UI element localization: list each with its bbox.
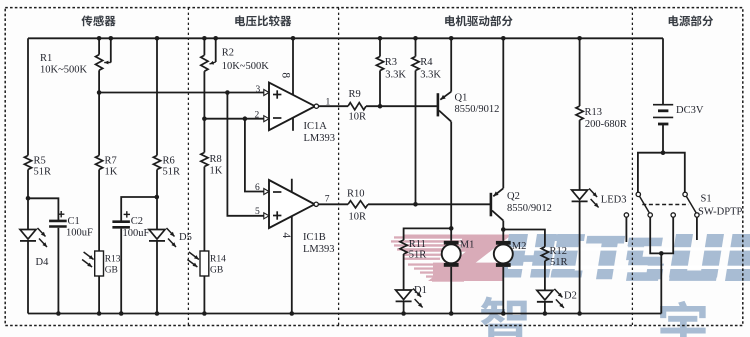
svg-text:2: 2	[255, 111, 260, 121]
wire inverting input net	[204, 118, 264, 120]
wire R5 column top	[27, 38, 29, 155]
wire R10 to Q2 base	[368, 203, 490, 205]
svg-text:LM393: LM393	[304, 133, 336, 144]
wire switch throw stub 1	[625, 217, 627, 242]
node pin6 tap	[243, 116, 248, 121]
svg-text:SW-DPTP: SW-DPTP	[698, 207, 743, 218]
title sensor section	[81, 15, 115, 26]
photoresistor R13 GB	[82, 251, 121, 276]
svg-text:C2: C2	[131, 216, 143, 227]
pin number 6	[255, 183, 260, 193]
wire R7 to R13	[98, 170, 100, 252]
resistor R3	[376, 36, 406, 106]
wire R11 tap	[404, 228, 452, 240]
wire IC1B output	[318, 203, 348, 205]
pin number 1	[326, 97, 331, 107]
resistor R12	[541, 246, 567, 268]
pin number 8 rotated	[280, 72, 292, 78]
top rail wire	[28, 37, 663, 39]
wire to pin 6	[245, 119, 265, 192]
capacitor C2	[112, 211, 149, 239]
wire IC1A output	[319, 105, 349, 107]
potentiometer R1	[40, 36, 113, 93]
wire noninverting input net	[99, 92, 265, 94]
resistor R5	[24, 156, 51, 178]
section divider 3	[631, 8, 633, 326]
svg-text:M2: M2	[512, 241, 527, 252]
svg-text:1K: 1K	[105, 167, 118, 178]
svg-text:D5: D5	[179, 232, 192, 243]
svg-text:GB: GB	[105, 266, 118, 276]
wire R13 to bottom rail	[97, 276, 102, 316]
transistor Q1	[437, 92, 500, 122]
svg-text:10K~500K: 10K~500K	[40, 65, 88, 76]
svg-text:C1: C1	[68, 216, 80, 227]
svg-text:3.3K: 3.3K	[385, 70, 406, 81]
svg-text:IC1B: IC1B	[303, 232, 326, 243]
wire R6 column top	[155, 36, 160, 156]
LED LED3	[572, 189, 627, 208]
wire switch feed bar	[638, 153, 685, 193]
wire R12 tap	[503, 230, 545, 247]
resistor R6	[153, 156, 180, 178]
op-amp IC1A power pin 8 wire	[291, 36, 296, 131]
svg-text:S1: S1	[701, 194, 712, 205]
switch S1 labels	[698, 194, 743, 218]
svg-text:R8: R8	[210, 154, 222, 165]
wire R8 to R14	[203, 167, 205, 252]
node pin5 tap	[225, 90, 230, 95]
pin number 5	[255, 207, 260, 217]
capacitor C1	[49, 211, 93, 239]
watermark char yu	[660, 301, 706, 337]
svg-text:3: 3	[256, 85, 261, 95]
svg-text:5: 5	[255, 207, 260, 217]
pin number 4 rotated	[280, 232, 292, 238]
title comparator section	[235, 15, 291, 26]
wire D4 to bottom rail	[27, 241, 29, 314]
resistor R10	[347, 189, 368, 223]
node M2-R12 junction	[501, 227, 506, 232]
watermark letter Z	[404, 235, 512, 282]
wire C1 tap	[28, 198, 58, 220]
wire M1 to bottom rail	[449, 267, 454, 316]
op-amp IC1B	[264, 180, 335, 255]
svg-text:D1: D1	[414, 285, 427, 296]
svg-text:51R: 51R	[409, 250, 427, 261]
svg-text:51R: 51R	[34, 167, 52, 178]
svg-text:LM393: LM393	[303, 244, 335, 255]
svg-text:R13: R13	[105, 255, 121, 265]
svg-text:DC3V: DC3V	[676, 105, 704, 116]
svg-text:R6: R6	[163, 156, 175, 167]
wire rail to battery	[662, 38, 664, 104]
transistor Q2	[490, 188, 552, 220]
resistor R11	[400, 239, 426, 261]
svg-text:GB: GB	[210, 266, 223, 276]
svg-text:D4: D4	[36, 257, 50, 268]
bottom rail wire	[28, 313, 661, 315]
svg-text:R11: R11	[409, 239, 426, 250]
svg-text:Q2: Q2	[507, 191, 520, 202]
LED D4	[20, 228, 49, 268]
motor M2	[494, 241, 527, 267]
node R2 bottom junction	[202, 116, 207, 121]
pin number 2	[255, 111, 260, 121]
wire to pin 5	[227, 93, 264, 216]
node switch ground join	[659, 251, 664, 256]
svg-text:100uF: 100uF	[66, 228, 93, 239]
wire R6 to D5	[156, 170, 158, 230]
wire R12 to D2	[544, 261, 546, 291]
resistor R7	[96, 156, 118, 178]
watermark char zhi	[481, 296, 527, 337]
node M1-R11 junction	[449, 226, 454, 231]
svg-text:8550/9012: 8550/9012	[455, 104, 500, 115]
node R3-R9 junction	[378, 104, 383, 109]
section divider 1	[187, 8, 189, 326]
LED D2	[537, 289, 577, 308]
resistor R9	[348, 89, 366, 123]
svg-text:R10: R10	[347, 189, 365, 200]
svg-text:6: 6	[255, 183, 260, 193]
svg-text:LED3: LED3	[601, 195, 627, 206]
wire R14 to bottom rail	[202, 276, 207, 316]
wire R13 to LED3	[579, 120, 581, 190]
node R1 bottom junction	[97, 90, 102, 95]
LED D5	[149, 228, 192, 247]
switch S1 pole 2	[671, 192, 699, 217]
resistor R8	[201, 119, 223, 177]
title power section	[669, 15, 713, 26]
svg-text:8550/9012: 8550/9012	[507, 203, 552, 214]
svg-text:R13: R13	[585, 107, 603, 118]
svg-text:4: 4	[280, 232, 292, 238]
wire LED3 to bottom rail	[577, 202, 582, 316]
svg-text:100uF: 100uF	[123, 228, 150, 239]
wire R7 column	[98, 93, 100, 156]
svg-text:8: 8	[280, 72, 292, 78]
wire D2 to bottom rail	[543, 302, 548, 316]
svg-text:M1: M1	[460, 240, 475, 251]
wire switch throw stub 2	[696, 217, 698, 240]
svg-text:R4: R4	[420, 57, 433, 68]
switch S1 pole 1	[624, 192, 652, 217]
battery DC3V	[653, 105, 704, 124]
op-amp IC1A	[264, 83, 335, 145]
svg-text:R3: R3	[385, 57, 397, 68]
svg-text:R9: R9	[349, 89, 361, 100]
section divider 2	[338, 8, 340, 326]
potentiometer R2	[201, 36, 269, 119]
wire C2 tap	[121, 197, 157, 221]
svg-text:1K: 1K	[210, 166, 223, 177]
svg-text:IC1A: IC1A	[304, 121, 328, 132]
svg-text:10K~500K: 10K~500K	[222, 61, 270, 72]
svg-text:10R: 10R	[349, 212, 367, 223]
pin number 7	[325, 195, 330, 205]
op-amp IC1B power pin 4 wire	[290, 179, 295, 316]
wire Q1 collector to M1	[450, 122, 452, 241]
resistor R4	[412, 36, 442, 204]
svg-text:R12: R12	[550, 246, 568, 257]
wire Q2 collector to M2	[502, 221, 504, 241]
wire D1 to bottom rail	[401, 302, 406, 316]
svg-text:R14: R14	[210, 255, 226, 265]
wire R11 to D1	[403, 254, 405, 290]
svg-text:10R: 10R	[349, 112, 367, 123]
wire D5 to bottom rail	[155, 241, 160, 316]
pin number 3	[256, 85, 261, 95]
watermark stripes	[391, 236, 464, 281]
wire battery to switch node	[662, 125, 664, 153]
switch gang dashed link	[642, 204, 688, 206]
svg-text:200-680R: 200-680R	[585, 119, 627, 130]
wire R9 to Q1 base	[366, 105, 437, 107]
watermark stripe cuts	[508, 247, 750, 269]
motor M1	[442, 240, 475, 267]
svg-text:R5: R5	[34, 156, 46, 167]
photoresistor R14 GB	[187, 251, 226, 276]
resistor R13 200-680R	[576, 36, 627, 130]
LED D1	[396, 285, 427, 308]
svg-text:7: 7	[325, 195, 330, 205]
wire Q1 emitter to rail	[449, 36, 454, 92]
wire switch throws to ground	[650, 217, 673, 253]
node D4-C1 junction	[26, 196, 31, 201]
wire M2 to bottom rail	[501, 267, 506, 316]
wire Q2 emitter to rail	[501, 36, 506, 188]
svg-text:Q1: Q1	[455, 93, 468, 104]
title motor drive section	[445, 15, 512, 26]
svg-text:51R: 51R	[550, 257, 568, 268]
svg-text:51R: 51R	[163, 167, 181, 178]
node battery negative	[661, 150, 666, 155]
svg-text:D2: D2	[564, 291, 577, 302]
node C2-D5 junction	[155, 195, 160, 200]
wire ground drop	[660, 253, 662, 313]
wire C2 to bottom rail	[119, 229, 124, 316]
svg-text:R7: R7	[105, 156, 117, 167]
wire R5 to D4 node	[27, 170, 29, 230]
wire C1 to bottom rail	[56, 228, 61, 316]
watermark letters HITSU	[502, 234, 750, 281]
node R4-R10 junction	[413, 202, 418, 207]
svg-text:R1: R1	[40, 53, 52, 64]
svg-text:3.3K: 3.3K	[420, 70, 441, 81]
svg-text:R2: R2	[222, 48, 234, 59]
